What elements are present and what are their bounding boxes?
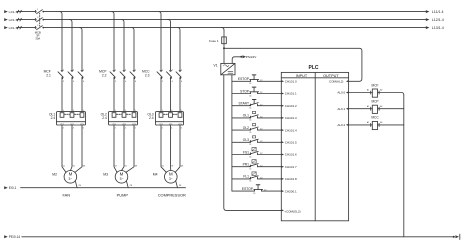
contact OL3 [250,141,252,143]
svg-text:PE/0.14: PE/0.14 [9,235,21,239]
wire branch1 phase1 to overload [61,79,63,112]
motor M4 [165,171,178,184]
wire coil MCC to rail [378,124,404,126]
breaker MCP pole 3 [133,70,135,73]
svg-text:PR1: PR1 [243,163,250,167]
svg-text:PUMP: PUMP [117,193,129,198]
svg-text:V1: V1 [125,165,127,167]
svg-text:FS1: FS1 [243,150,249,154]
svg-text:4: 4 [172,81,173,83]
svg-text:V1: V1 [171,165,173,167]
svg-text:2: 2 [115,128,116,130]
wire branch2 phase1 to motor [114,125,117,172]
contact OL2 [250,128,252,130]
svg-text:2: 2 [162,128,163,130]
svg-text:3~: 3~ [69,177,73,181]
wire branch3 phase1 drop [159,12,162,71]
svg-text:4: 4 [125,81,126,83]
wire L2 bus main segment [43,19,425,21]
svg-text:W1: W1 [135,165,138,167]
contact PR1 [250,165,252,167]
wire branch1 phase3 to overload [81,79,83,112]
wire branch3 phase1 to overload [160,79,162,112]
wire branch2 phase3 drop [132,28,135,71]
svg-text:6: 6 [135,128,136,130]
node PLC input terminal CH101.6 [282,154,284,156]
wire L3 bus left segment [17,27,35,29]
coil MCC [372,121,377,129]
svg-text:3: 3 [172,69,173,71]
node E left flag [4,186,8,189]
svg-text:1: 1 [115,69,116,71]
wire 24V rail [231,75,233,191]
node L3 left flag [4,26,8,29]
wire coil MCP to rail [378,108,404,110]
wire over PLC to COM(AL2) [224,48,362,81]
svg-text:11: 11 [249,120,252,122]
svg-text:3: 3 [125,69,126,71]
svg-text:11: 11 [249,181,252,183]
svg-text:11: 11 [253,193,256,195]
node 0V right junction [453,236,455,238]
breaker MCF pole 3 [81,70,83,73]
wire L1 bus left segment [17,11,35,13]
svg-text:AL0.2: AL0.2 [337,123,345,127]
svg-text:11: 11 [249,83,252,85]
node PLC output terminal AL0.1 [346,108,348,110]
node PLC input terminal CH101.3 [282,117,284,119]
wire branch2 phase3 to overload [133,79,135,112]
svg-text:OUTPUT: OUTPUT [323,74,339,78]
svg-text:MCF: MCF [372,83,379,87]
wire input row OL1 [232,117,251,119]
wire input row START [232,105,251,107]
svg-text:11: 11 [249,156,252,158]
svg-text:CH101.6: CH101.6 [285,153,297,157]
svg-text:PE: PE [130,185,133,187]
breaker MCF pole 1 [61,70,63,73]
fuse FU1 [222,37,227,44]
svg-text:A1: A1 [367,89,369,92]
node PLC input terminal CH101.5 [282,141,284,143]
wire output row MCC [349,124,373,126]
svg-text:+COM(GL2): +COM(GL2) [284,210,300,214]
svg-text:M: M [169,171,173,176]
wire motor M4 earth stub [176,181,178,188]
svg-text:COM(AL2): COM(AL2) [329,80,343,84]
wire L1 bus main segment [43,11,425,13]
overload relay OL1 box [57,112,86,125]
svg-text:PE: PE [179,185,182,187]
wire fuse to V1 [223,48,225,63]
overload relay OL3 box [156,112,184,125]
breaker CB1 label MCB 3P 30A [35,31,41,41]
breaker CB1 pole 3 [34,27,37,29]
svg-text:3~: 3~ [120,177,124,181]
node L13 right flag [426,26,430,29]
breaker MCC pole 2 [170,70,172,73]
svg-text:U1: U1 [115,165,117,167]
svg-text:2.4: 2.4 [102,116,107,120]
svg-text:AL0.1: AL0.1 [337,107,345,111]
svg-text:3~: 3~ [169,177,173,181]
motor M3 [115,171,128,184]
svg-text:5: 5 [135,69,136,71]
node PLC input terminal CH101.4 [282,129,284,131]
svg-text:6: 6 [181,81,182,83]
contact FS1 [250,153,252,155]
svg-text:L12/1.4: L12/1.4 [432,18,444,22]
node PLC terminal COM(AL2) [346,80,348,82]
svg-text:6: 6 [135,81,136,83]
node PLC input terminal CH101.2 [282,105,284,107]
svg-text:CH101.2: CH101.2 [285,104,297,108]
svg-text:PS/24V: PS/24V [246,55,257,59]
svg-text:PLC: PLC [309,65,319,71]
overload relay OL2 box [109,112,138,125]
svg-text:4: 4 [171,128,172,130]
svg-text:4: 4 [73,128,74,130]
wire branch1 phase1 to motor [62,125,66,172]
breaker MCP label [99,70,107,78]
wire 0V rail to +COM [224,75,281,211]
wire branch2 phase2 to overload [123,79,125,112]
breaker MCC pole 3 [179,70,181,73]
svg-text:A1: A1 [367,105,369,108]
svg-text:W1: W1 [181,165,184,167]
svg-text:CH101.0: CH101.0 [285,80,297,84]
svg-text:COMPRESSOR: COMPRESSOR [158,193,186,198]
wire output row MCF [349,92,373,94]
wire input row OL2 [232,129,251,131]
wire input row STOP [232,93,251,95]
power supply V1 [221,63,235,74]
breaker MCC pole 1 [160,70,162,73]
wire coil MCF to rail [378,93,404,96]
svg-text:Fuse 1: Fuse 1 [209,39,219,43]
wire branch1 phase2 drop [70,20,73,71]
svg-text:2: 2 [63,81,64,83]
overload relay OL1 label [49,112,55,120]
wire branch1 phase2 to overload [71,79,73,112]
wire branch2 phase2 to motor [122,125,125,171]
svg-text:1: 1 [162,69,163,71]
node PLC output terminal AL0.0 [346,92,348,94]
svg-text:W1: W1 [83,165,86,167]
node L1 left flag [4,10,8,13]
svg-text:V1: V1 [213,64,217,68]
node PLC input terminal CH200.1 [282,190,284,192]
svg-text:M: M [69,171,73,176]
wire input row OL3 [232,141,251,143]
wire L3 bus main segment [43,27,425,29]
svg-text:1: 1 [37,9,38,11]
breaker MCP pole 2 [123,70,125,73]
svg-text:FL1: FL1 [243,175,249,179]
svg-text:L3/1.1: L3/1.1 [9,26,18,30]
wire 0V line [22,236,453,238]
node 0V left flag [4,235,8,238]
wire input row FS1 [232,154,251,156]
svg-text:11: 11 [249,132,252,134]
svg-text:V1: V1 [73,165,75,167]
svg-text:CH200.1: CH200.1 [285,189,297,193]
breaker CB1 pole 2 [34,19,37,21]
svg-text:2.3: 2.3 [145,73,150,77]
wire V1 24V output flag [232,57,240,64]
svg-text:M2: M2 [52,172,57,176]
svg-text:OL2: OL2 [243,126,249,130]
wire branch3 phase3 to overload [179,79,181,112]
wire branch1 phase2 to motor [70,125,72,171]
svg-text:CH101.7: CH101.7 [285,165,297,169]
svg-text:2.4: 2.4 [51,116,56,120]
svg-text:A2: A2 [380,89,382,92]
node junction 24V feed [223,47,225,49]
svg-text:L13/1.4: L13/1.4 [432,26,444,30]
svg-text:STOP: STOP [240,89,250,93]
svg-text:L1/1.1: L1/1.1 [9,10,18,14]
wire branch3 phase2 to motor [170,125,172,171]
svg-text:A1: A1 [367,121,369,124]
svg-text:2.2: 2.2 [102,73,107,77]
wire branch3 phase1 to motor [161,125,166,172]
svg-text:INPUT: INPUT [296,74,308,78]
svg-text:PE: PE [79,185,82,187]
svg-text:6: 6 [181,128,182,130]
svg-text:U1: U1 [162,165,164,167]
overload relay OL3 label [147,112,153,120]
coil MCP [372,105,377,113]
svg-text:2.4: 2.4 [149,116,154,120]
node L2 left flag [4,18,8,21]
wire fuse drop from L3 [222,28,225,31]
svg-text:4: 4 [73,81,74,83]
svg-text:OL1: OL1 [243,114,249,118]
svg-text:3: 3 [37,17,38,19]
breaker CB1 linkage (dashed) [39,13,41,26]
node PLC input terminal CH101.0 [282,80,284,82]
contact OL1 [250,116,252,118]
contact STOP [250,92,252,94]
svg-text:MCP: MCP [371,100,378,104]
coil MCF [372,89,377,97]
svg-text:E/0.1: E/0.1 [9,186,17,190]
node PLC input terminal CH101.7 [282,166,284,168]
svg-text:11: 11 [249,95,252,97]
svg-text:L2/1.1: L2/1.1 [9,18,18,22]
svg-text:5: 5 [83,69,84,71]
svg-text:1: 1 [63,69,64,71]
svg-text:CH101.8: CH101.8 [285,177,297,181]
svg-text:30A: 30A [35,36,40,40]
wire branch2 phase1 drop [112,12,115,71]
wire earth line [21,187,186,189]
wire motor M2 earth stub [75,181,77,188]
wire input row ESTOP [232,80,251,82]
node L11 right flag [426,10,430,13]
wire input row PR1 [232,166,251,168]
motor M2 [64,171,77,184]
svg-text:11: 11 [249,108,252,110]
svg-text:CH101.1: CH101.1 [285,92,297,96]
node PLC input terminal CH101.1 [282,93,284,95]
wire input row ESTOP [232,190,255,192]
wire branch1 phase1 drop [60,12,63,71]
node PLC terminal +COM(GL2) [282,209,284,211]
wire input row FL1 [232,178,251,180]
contact FL1 [250,177,252,179]
svg-text:4: 4 [125,128,126,130]
wire branch3 phase3 drop [178,28,181,71]
node PLC input terminal CH101.8 [282,178,284,180]
wire branch1 phase3 to motor [75,125,82,172]
op PLC block [281,65,348,221]
svg-text:MCC: MCC [371,116,379,120]
svg-text:A2: A2 [380,105,382,108]
svg-text:M4: M4 [153,172,158,176]
svg-text:M3: M3 [103,172,108,176]
svg-text:M: M [120,171,124,176]
svg-text:11: 11 [249,144,252,146]
svg-text:6: 6 [83,128,84,130]
breaker MCF label [44,70,51,78]
svg-text:5: 5 [181,69,182,71]
wire output row MCP [349,108,373,110]
wire branch2 phase3 to motor [126,125,134,172]
svg-text:ESTOP: ESTOP [242,187,254,191]
breaker CB1 pole 1 [34,11,37,13]
svg-text:5: 5 [37,25,38,27]
svg-text:L11/1.4: L11/1.4 [432,10,444,14]
svg-text:OL3: OL3 [243,138,249,142]
svg-text:A2: A2 [380,121,382,124]
svg-text:2: 2 [162,81,163,83]
breaker MCC label [142,70,150,78]
node L12 right flag [426,18,430,21]
wire branch3 phase3 to motor [175,125,180,172]
wire branch2 phase2 drop [122,20,125,71]
svg-text:FAN: FAN [63,193,71,198]
svg-text:CH101.3: CH101.3 [285,116,297,120]
svg-text:2: 2 [115,81,116,83]
overload relay OL2 label [101,112,107,120]
svg-text:U1: U1 [63,165,65,167]
wire branch2 phase1 to overload [113,79,115,112]
svg-text:ESTOP: ESTOP [238,77,250,81]
svg-text:2: 2 [63,128,64,130]
breaker MCP pole 1 [113,70,115,73]
wire branch3 phase2 drop [168,20,171,71]
wire branch1 phase3 drop [80,28,83,71]
svg-text:3: 3 [73,69,74,71]
svg-text:CH101.5: CH101.5 [285,141,297,145]
wire branch3 phase2 to overload [170,79,172,112]
wire L2 bus left segment [17,19,35,21]
svg-text:CH101.4: CH101.4 [285,128,297,132]
svg-text:2.1: 2.1 [46,73,51,77]
wire output rail to 0V [403,95,405,237]
node PLC output terminal AL0.2 [346,124,348,126]
svg-text:AL0.0: AL0.0 [337,91,345,95]
svg-text:6: 6 [83,81,84,83]
svg-text:START: START [238,102,249,106]
contact ESTOP [254,189,256,191]
contact ESTOP [250,80,252,82]
breaker MCF pole 2 [71,70,73,73]
contact START [250,104,252,106]
wire motor M3 earth stub [126,181,128,188]
svg-text:11: 11 [249,169,252,171]
